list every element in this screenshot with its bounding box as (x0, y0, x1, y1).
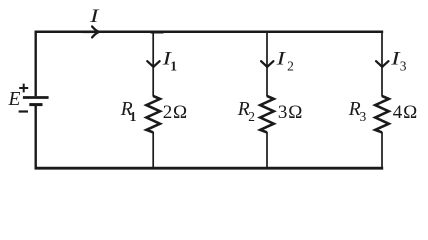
wire: branch 2 vertical top segment (266, 31, 268, 97)
label I1 (161, 48, 177, 73)
label E (source voltage) (8, 89, 21, 110)
svg-text:3: 3 (360, 109, 367, 124)
label value 3 ohm (278, 102, 303, 123)
resistor R1 zigzag (146, 96, 160, 132)
wire: top horizontal bus (35, 31, 384, 34)
current arrow I3 on branch 3 (376, 61, 388, 67)
svg-text:1: 1 (170, 59, 177, 74)
svg-text:I: I (275, 48, 287, 69)
wire: left vertical above battery (35, 31, 37, 97)
svg-text:1: 1 (130, 109, 137, 124)
svg-text:E: E (8, 89, 21, 110)
wire: branch 1 vertical bottom segment (152, 132, 154, 169)
svg-text:3: 3 (400, 59, 407, 74)
junction tick on top wire at branch 1 (151, 32, 164, 34)
battery plus sign (19, 84, 28, 93)
label value 2 ohm (163, 102, 188, 123)
wire: branch 1 vertical top segment (152, 31, 154, 97)
label I (total current) (89, 6, 101, 27)
svg-text:4Ω: 4Ω (393, 102, 418, 123)
label R1 (120, 99, 137, 124)
wire: branch 2 vertical bottom segment (266, 132, 268, 169)
battery minus sign (19, 110, 28, 112)
label I3 (390, 48, 407, 73)
svg-text:2Ω: 2Ω (163, 102, 188, 123)
current arrow I1 on branch 1 (147, 61, 159, 67)
svg-text:2: 2 (287, 59, 294, 74)
current arrow I on top wire (82, 27, 99, 38)
wire: left vertical below battery (35, 106, 37, 169)
label I2 (275, 48, 294, 73)
wire: branch 3 (right side) vertical top segment (381, 31, 383, 97)
label value 4 ohm (393, 102, 418, 123)
battery E top plate (positive, long) (23, 96, 49, 99)
svg-text:I: I (89, 6, 101, 27)
resistor R2 zigzag (260, 96, 274, 132)
label R3 (348, 99, 367, 124)
current arrow I2 on branch 2 (261, 61, 273, 67)
wire: bottom horizontal bus (35, 167, 384, 170)
resistor R3 zigzag (375, 96, 389, 132)
svg-text:3Ω: 3Ω (278, 102, 303, 123)
svg-text:2: 2 (248, 109, 255, 124)
battery E bottom plate (negative, short) (29, 103, 42, 106)
wire: branch 3 vertical bottom segment (381, 132, 383, 169)
label R2 (237, 99, 255, 124)
